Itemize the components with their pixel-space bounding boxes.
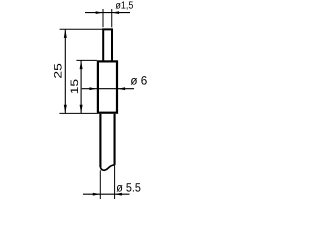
shaft left edge bbox=[99, 114, 101, 167]
svg-text:15: 15 bbox=[69, 79, 81, 95]
shaft right edge bbox=[114, 114, 116, 165]
arrow bottom of 25 bbox=[64, 105, 67, 114]
arrow right of ø5.5 bbox=[115, 193, 122, 196]
svg-text:ø1,5: ø1,5 bbox=[115, 1, 133, 12]
dimension line ø1,5 bbox=[85, 12, 130, 14]
svg-text:ø 5.5: ø 5.5 bbox=[116, 180, 141, 194]
svg-text:25: 25 bbox=[52, 63, 64, 79]
extension line at body top shoulder bbox=[76, 59, 97, 61]
label 15 bbox=[69, 79, 81, 95]
body ø6 bbox=[98, 61, 117, 112]
extension line below break left bbox=[99, 170, 101, 199]
label 25 bbox=[52, 63, 64, 79]
dimension line 25 bbox=[64, 29, 66, 113]
svg-text:ø 6: ø 6 bbox=[130, 73, 147, 87]
arrow left of ø6 body bbox=[89, 87, 96, 90]
dimension line 15 bbox=[80, 60, 82, 113]
dimension line ø5.5 bbox=[83, 193, 130, 195]
arrow top of 15 bbox=[80, 61, 83, 70]
arrow bottom of 15 bbox=[80, 105, 83, 114]
arrow right of ø1,5 bbox=[112, 11, 119, 14]
extension line below break right bbox=[114, 165, 116, 199]
arrow left of ø5.5 bbox=[93, 193, 100, 196]
extension line at body bottom bbox=[59, 112, 97, 114]
label ø 5.5 bbox=[116, 180, 141, 194]
label ø 6 bbox=[130, 73, 147, 87]
extension line above pin left bbox=[102, 9, 104, 27]
arrow right of ø6 body bbox=[118, 87, 125, 90]
extension line above pin right bbox=[111, 9, 113, 27]
arrow top of 25 bbox=[64, 29, 67, 38]
pin stem (contact tip) bbox=[103, 29, 112, 61]
label ø1,5 bbox=[115, 1, 133, 12]
arrow left of ø1,5 bbox=[96, 11, 103, 14]
break squiggle bbox=[100, 165, 114, 170]
extension line at pin top bbox=[60, 28, 103, 30]
dimension line ø6 bbox=[82, 88, 134, 90]
